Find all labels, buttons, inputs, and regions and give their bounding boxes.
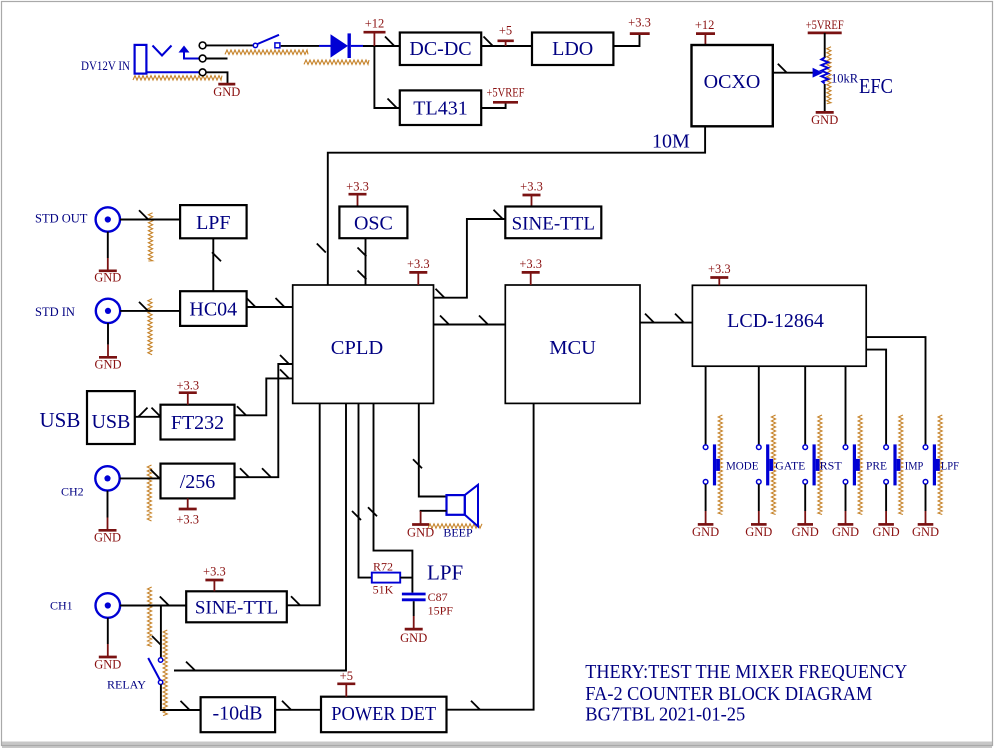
svg-text:15PF: 15PF bbox=[428, 604, 454, 618]
svg-text:10M: 10M bbox=[652, 131, 690, 153]
svg-text:/256: /256 bbox=[180, 471, 216, 493]
svg-text:LPF: LPF bbox=[941, 461, 959, 473]
svg-text:GND: GND bbox=[94, 658, 121, 672]
svg-text:GND: GND bbox=[213, 85, 240, 99]
svg-text:+3.3: +3.3 bbox=[346, 180, 369, 194]
svg-text:STD IN: STD IN bbox=[35, 305, 75, 319]
svg-text:RST: RST bbox=[820, 461, 842, 473]
svg-text:51K: 51K bbox=[373, 583, 394, 597]
svg-text:GND: GND bbox=[400, 631, 427, 645]
svg-text:GND: GND bbox=[407, 526, 434, 540]
svg-text:OSC: OSC bbox=[354, 213, 393, 235]
svg-text:LPF: LPF bbox=[196, 212, 230, 234]
svg-text:+12: +12 bbox=[695, 18, 715, 32]
svg-text:-10dB: -10dB bbox=[213, 703, 263, 725]
svg-text:EFC: EFC bbox=[859, 74, 893, 98]
svg-text:R72: R72 bbox=[373, 560, 393, 574]
svg-text:+5VREF: +5VREF bbox=[806, 18, 844, 32]
svg-text:GATE: GATE bbox=[775, 461, 805, 473]
svg-text:GND: GND bbox=[692, 525, 719, 539]
svg-text:+3.3: +3.3 bbox=[176, 513, 199, 527]
svg-text:GND: GND bbox=[811, 113, 838, 127]
svg-text:SINE-TTL: SINE-TTL bbox=[512, 214, 595, 235]
svg-text:OCXO: OCXO bbox=[704, 71, 761, 93]
svg-text:+3.3: +3.3 bbox=[708, 262, 731, 276]
svg-text:LPF: LPF bbox=[427, 561, 463, 585]
svg-text:USB: USB bbox=[91, 411, 130, 433]
svg-text:+5: +5 bbox=[340, 669, 353, 683]
svg-text:MODE: MODE bbox=[726, 461, 759, 473]
svg-text:FT232: FT232 bbox=[171, 412, 224, 434]
svg-text:+5: +5 bbox=[499, 24, 512, 38]
svg-text:BG7TBL 2021-01-25: BG7TBL 2021-01-25 bbox=[585, 704, 745, 726]
svg-text:USB: USB bbox=[40, 408, 81, 432]
svg-text:+3.3: +3.3 bbox=[176, 378, 199, 392]
svg-text:RELAY: RELAY bbox=[107, 678, 146, 692]
svg-text:GND: GND bbox=[94, 530, 121, 544]
svg-text:STD OUT: STD OUT bbox=[35, 212, 88, 226]
svg-text:IMP: IMP bbox=[905, 461, 924, 473]
svg-text:FA-2 COUNTER BLOCK DIAGRAM: FA-2 COUNTER BLOCK DIAGRAM bbox=[585, 683, 872, 705]
svg-text:+5VREF: +5VREF bbox=[487, 86, 525, 100]
svg-text:C87: C87 bbox=[428, 590, 448, 604]
svg-text:GND: GND bbox=[94, 271, 121, 285]
svg-text:MCU: MCU bbox=[549, 337, 596, 359]
svg-text:PRE: PRE bbox=[866, 461, 887, 473]
svg-text:+3.3: +3.3 bbox=[519, 257, 542, 271]
svg-text:LCD-12864: LCD-12864 bbox=[727, 310, 824, 332]
svg-text:+3.3: +3.3 bbox=[520, 180, 543, 194]
svg-text:TL431: TL431 bbox=[413, 98, 467, 120]
svg-text:CH1: CH1 bbox=[50, 599, 73, 613]
svg-text:SINE-TTL: SINE-TTL bbox=[195, 598, 278, 619]
svg-text:GND: GND bbox=[94, 357, 121, 371]
svg-text:10kR: 10kR bbox=[831, 72, 859, 86]
svg-text:CH2: CH2 bbox=[61, 485, 84, 499]
svg-text:CPLD: CPLD bbox=[331, 337, 383, 359]
svg-text:+3.3: +3.3 bbox=[407, 257, 430, 271]
svg-text:BEEP: BEEP bbox=[443, 526, 473, 540]
svg-text:DC-DC: DC-DC bbox=[409, 38, 471, 60]
svg-text:LDO: LDO bbox=[552, 38, 593, 60]
svg-text:+3.3: +3.3 bbox=[628, 16, 651, 30]
svg-text:DV12V IN: DV12V IN bbox=[81, 59, 130, 73]
svg-text:+3.3: +3.3 bbox=[203, 565, 226, 579]
svg-text:+12: +12 bbox=[365, 17, 385, 31]
svg-text:HC04: HC04 bbox=[189, 299, 237, 321]
svg-text:POWER DET: POWER DET bbox=[331, 703, 436, 725]
svg-text:THERY:TEST THE MIXER FREQUENCY: THERY:TEST THE MIXER FREQUENCY bbox=[585, 661, 907, 683]
